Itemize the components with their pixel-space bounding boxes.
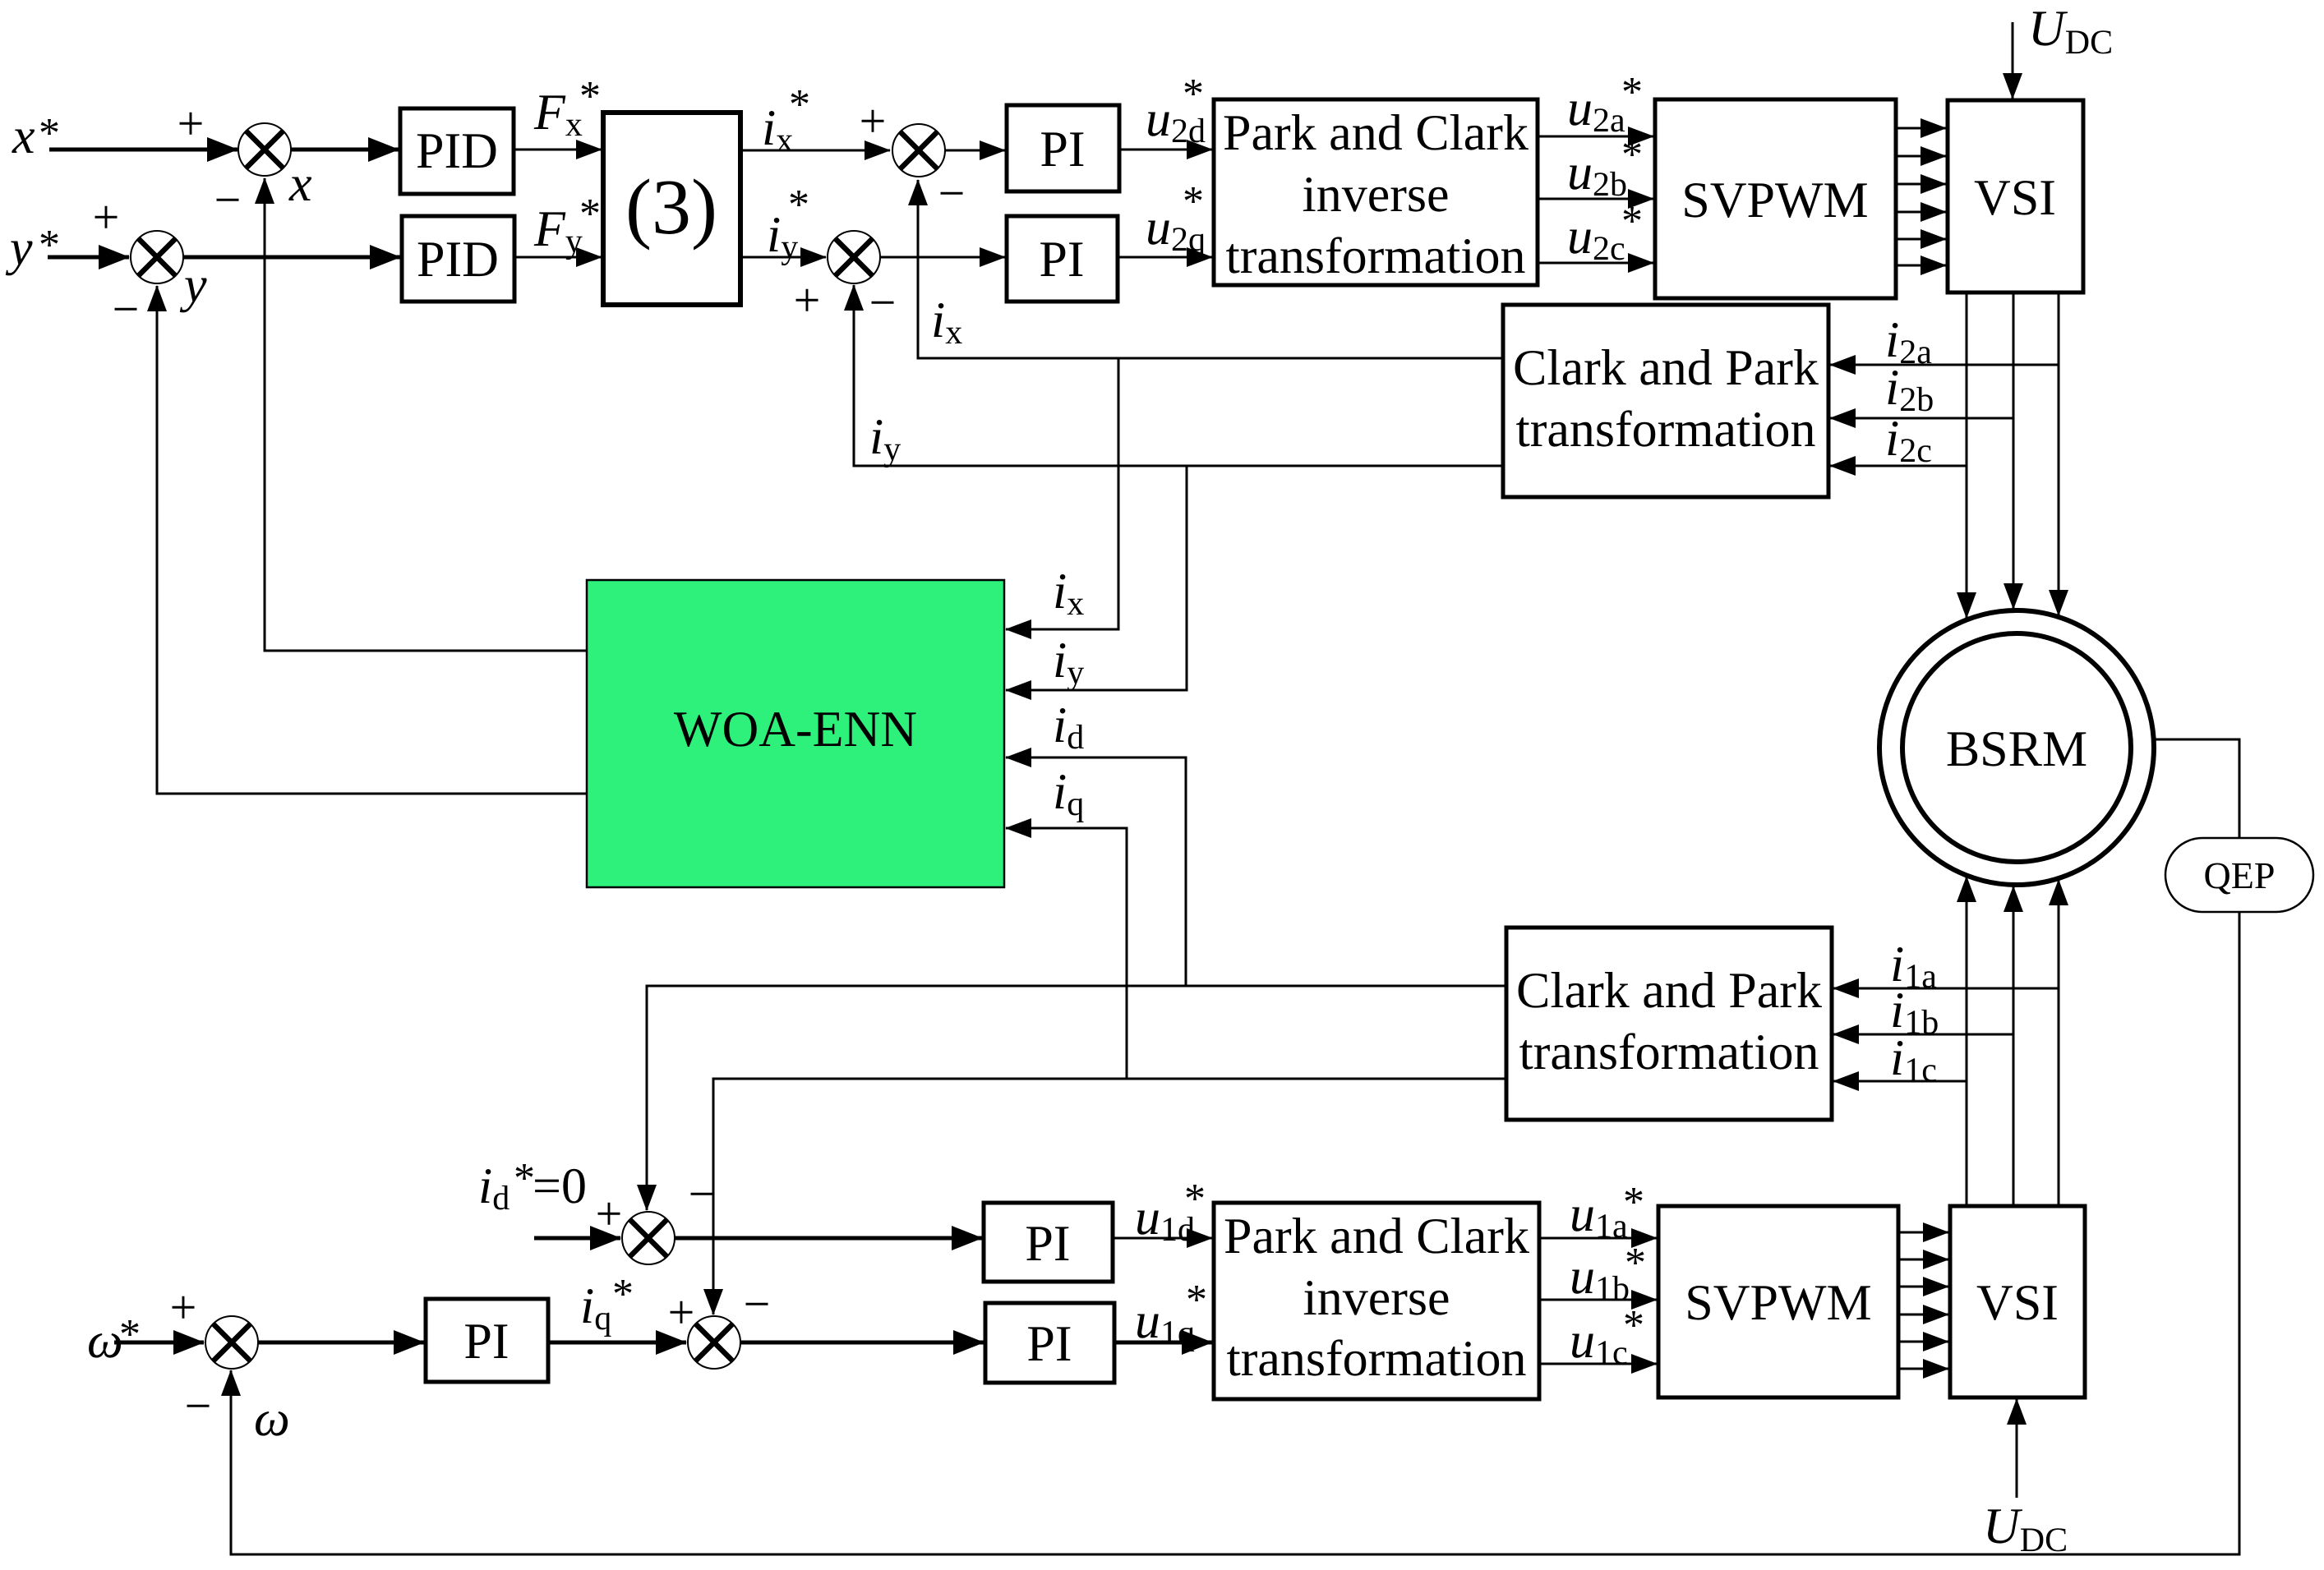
svg-text:ω: ω: [87, 1313, 123, 1369]
wire UDC1 into VSI1: [2012, 22, 2014, 99]
wire BSRM to QEP: [2154, 739, 2239, 838]
svg-text:VSI: VSI: [1976, 1275, 2059, 1331]
svg-text:*: *: [612, 1271, 634, 1318]
wire x* input: [49, 148, 237, 152]
svg-text:SVPWM: SVPWM: [1685, 1275, 1871, 1331]
wire VSI2 phase b up to BSRM: [2013, 886, 2015, 1206]
wire VSI2 phase c up to BSRM: [2058, 880, 2060, 1206]
svg-text:VSI: VSI: [1974, 170, 2056, 226]
summing junction C1: [238, 123, 291, 176]
block QEP sensor: [2165, 838, 2313, 912]
svg-text:ω: ω: [254, 1391, 290, 1447]
svg-text:*: *: [579, 73, 601, 120]
wire PI4 to Park2 u1d: [1113, 1237, 1212, 1240]
svg-text:+: +: [596, 1187, 623, 1241]
wire WOA x out to C1: [265, 178, 587, 651]
wire C4 to PI2: [880, 256, 1005, 259]
svg-text:PI: PI: [1026, 1316, 1072, 1372]
block Park2 inverse transformation: [1214, 1203, 1539, 1399]
summing junction C7: [205, 1316, 258, 1369]
summing junction C6: [688, 1316, 740, 1369]
svg-text:PI: PI: [463, 1314, 509, 1370]
motor BSRM outer circle: [1879, 610, 2154, 885]
svg-text:QEP: QEP: [2204, 854, 2276, 896]
svg-text:*: *: [39, 222, 60, 269]
wire i1c to Clark2: [1833, 1080, 1967, 1083]
svg-text:(3): (3): [625, 163, 717, 251]
block WOA-ENN: [587, 580, 1004, 887]
wire SVPWM1 to VSI1 gate4: [1896, 211, 1946, 214]
svg-text:PI: PI: [1025, 1216, 1070, 1272]
wire SVPWM2 to VSI2 gate2: [1898, 1259, 1948, 1261]
block SVPWM2: [1658, 1206, 1898, 1397]
svg-text:+: +: [668, 1286, 695, 1339]
block Park1 inverse transformation: [1214, 99, 1538, 285]
block VSI2: [1950, 1206, 2085, 1397]
wire Clark2 iq out to C6: [713, 1079, 1506, 1314]
wire Clark2 id out to C5: [647, 986, 1506, 1210]
wire C2 to PID2: [183, 256, 400, 260]
block equation (3): [603, 113, 740, 305]
svg-text:PI: PI: [1040, 122, 1085, 177]
svg-text:−: −: [938, 167, 966, 220]
wire SVPWM1 to VSI1 gate3: [1896, 183, 1946, 186]
svg-text:*: *: [1183, 178, 1204, 225]
svg-text:*: *: [119, 1311, 141, 1358]
svg-text:*: *: [1183, 71, 1204, 117]
svg-text:y: y: [179, 257, 207, 313]
svg-text:*: *: [1621, 69, 1643, 116]
svg-text:−: −: [689, 1167, 716, 1221]
wire WOA y out to C2: [157, 286, 587, 794]
wire SVPWM1 to VSI1 gate1: [1896, 127, 1946, 130]
wire Clark1 iy out to C4: [854, 285, 1503, 466]
wire SVPWM1 to VSI1 gate5: [1896, 238, 1946, 241]
wire SVPWM2 to VSI2 gate1: [1898, 1232, 1948, 1234]
svg-text:+: +: [170, 1281, 197, 1334]
wire Park1 to SVPWM1 u2a: [1538, 136, 1653, 138]
svg-text:BSRM: BSRM: [1946, 721, 2087, 777]
wire SVPWM2 to VSI2 gate5: [1898, 1341, 1948, 1343]
wire PI2 to Park1 u2q: [1118, 256, 1212, 259]
block Clark1 transformation: [1503, 305, 1828, 497]
wire i1b to Clark2: [1833, 1034, 2013, 1036]
svg-text:=0: =0: [533, 1158, 587, 1214]
wire i2b to Clark1: [1830, 417, 2013, 420]
svg-text:*: *: [788, 182, 809, 228]
block SVPWM1: [1655, 99, 1896, 298]
wire y* input: [48, 256, 129, 260]
svg-text:+: +: [93, 191, 120, 244]
block PI4: [984, 1203, 1113, 1282]
svg-text:*: *: [1186, 1277, 1207, 1324]
block PI3: [426, 1299, 548, 1382]
block Clark2 transformation: [1506, 928, 1832, 1120]
svg-text:−: −: [214, 173, 242, 227]
block VSI1: [1948, 100, 2083, 292]
svg-text:*: *: [1621, 131, 1643, 178]
wire id branch to WOA: [1006, 757, 1186, 986]
svg-text:−: −: [113, 283, 140, 336]
svg-text:−: −: [869, 276, 897, 329]
svg-text:x: x: [288, 156, 312, 212]
wire SVPWM1 to VSI1 gate2: [1896, 155, 1946, 158]
svg-text:*: *: [39, 110, 60, 157]
wire PI1 to Park1 u2d: [1119, 149, 1212, 151]
wire Park2 to SVPWM2 u1b: [1539, 1299, 1657, 1301]
wire PI3 to C6 iq*: [548, 1341, 686, 1345]
svg-text:−: −: [744, 1278, 771, 1331]
wire UDC2 into VSI2: [2016, 1399, 2018, 1498]
wire id*=0 input: [534, 1236, 620, 1241]
wire C5 to PI4: [675, 1236, 982, 1241]
svg-text:*: *: [579, 191, 601, 237]
svg-text:−: −: [185, 1379, 212, 1433]
wire C1 to PID1: [291, 148, 399, 152]
wire VSI2 phase a up to BSRM: [1966, 877, 1968, 1206]
svg-text:*: *: [1623, 1179, 1644, 1226]
wire Clark1 ix out to C3: [918, 180, 1503, 358]
svg-text:x: x: [12, 108, 35, 164]
svg-text:WOA-ENN: WOA-ENN: [674, 702, 917, 757]
wire Park2 to SVPWM2 u1a: [1539, 1237, 1657, 1240]
svg-text:y: y: [5, 220, 33, 276]
wire C6 to PI5: [740, 1341, 984, 1345]
wire QEP to omega feedback: [231, 912, 2239, 1554]
svg-text:SVPWM: SVPWM: [1681, 173, 1868, 228]
wire SVPWM2 to VSI2 gate3: [1898, 1286, 1948, 1288]
svg-text:PID: PID: [417, 232, 499, 288]
block PI2: [1007, 216, 1118, 302]
summing junction C5: [622, 1212, 675, 1264]
wire Park1 to SVPWM1 u2c: [1538, 262, 1653, 265]
wire PID2 to block3 Fy*: [514, 256, 602, 259]
wire i2a to Clark1: [1830, 364, 2059, 366]
wire SVPWM2 to VSI2 gate6: [1898, 1368, 1948, 1370]
wire VSI1 phase c down to BSRM: [2058, 292, 2060, 615]
wire iq branch to WOA: [1006, 828, 1127, 1079]
wire block3 to C4 iy*: [740, 256, 826, 259]
summing junction C3: [892, 124, 945, 177]
motor BSRM inner circle: [1902, 633, 2131, 862]
wire C3 to PI1: [945, 150, 1005, 152]
block PI1: [1007, 105, 1119, 191]
block PID2: [402, 216, 514, 302]
svg-text:*: *: [1184, 1176, 1206, 1222]
wire SVPWM2 to VSI2 gate4: [1898, 1314, 1948, 1316]
wire iy branch to WOA: [1006, 466, 1187, 690]
wire VSI1 phase b down to BSRM: [2013, 292, 2015, 609]
wire VSI1 phase a down to BSRM: [1966, 292, 1968, 618]
svg-text:+: +: [178, 97, 205, 150]
svg-text:*: *: [1621, 198, 1643, 245]
svg-text:*: *: [789, 81, 810, 128]
wire Park2 to SVPWM2 u1c: [1539, 1363, 1657, 1365]
wire ix branch to WOA: [1006, 358, 1118, 629]
svg-text:PID: PID: [416, 123, 498, 179]
svg-text:PI: PI: [1039, 232, 1084, 288]
summing junction C4: [828, 231, 880, 283]
wire block3 to C3 ix*: [740, 150, 890, 152]
summing junction C2: [131, 231, 183, 283]
svg-text:+: +: [860, 94, 887, 148]
wire PI5 to Park2 u1q: [1114, 1341, 1212, 1345]
wire SVPWM1 to VSI1 gate6: [1896, 265, 1946, 267]
svg-text:+: +: [794, 274, 821, 327]
block PI5: [985, 1303, 1114, 1383]
svg-text:*: *: [1625, 1240, 1646, 1287]
svg-text:*: *: [514, 1155, 535, 1202]
wire C7 to PI3: [258, 1341, 424, 1345]
wire i2c to Clark1: [1830, 465, 1967, 467]
svg-text:*: *: [1623, 1302, 1644, 1349]
block PID1: [400, 108, 514, 194]
wire Park1 to SVPWM1 u2b: [1538, 198, 1653, 200]
wire PID1 to block3 Fx*: [514, 149, 602, 151]
wire omega* input: [114, 1341, 204, 1345]
wire i1a to Clark2: [1833, 988, 2059, 990]
